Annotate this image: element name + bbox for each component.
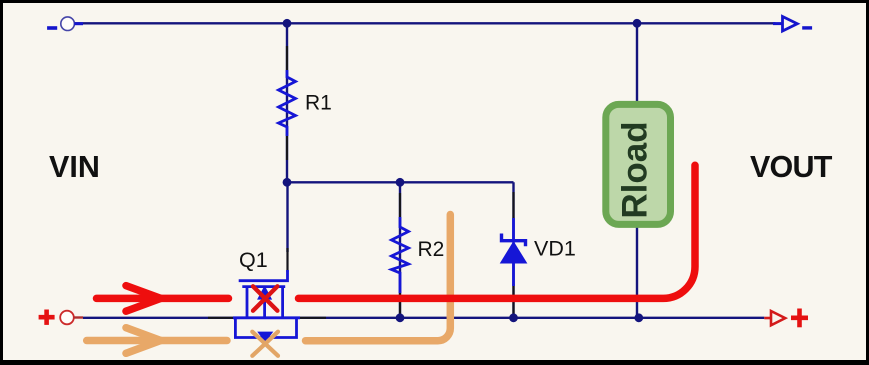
terminal stub bottom-left — [74, 316, 83, 318]
svg-text:VOUT: VOUT — [750, 150, 833, 184]
wire: Rload top lead — [636, 23, 638, 106]
wire: top rail — [74, 22, 775, 24]
load resistor Rload — [606, 104, 671, 224]
bottom bar — [233, 316, 300, 319]
substrate arrow — [259, 288, 269, 298]
junction dot middle R2 — [396, 178, 405, 187]
drain vertical — [246, 287, 249, 318]
pin segment R1 top (dark) — [286, 46, 288, 70]
orange current path left with arrowhead — [87, 328, 227, 354]
channel plate — [242, 285, 285, 288]
pin segment R2 top (dark) — [399, 193, 401, 217]
svg-text:R1: R1 — [305, 92, 332, 115]
junction dot bottom VD1 — [509, 313, 518, 322]
svg-text:R2: R2 — [418, 238, 445, 261]
minus sign top-right — [802, 26, 812, 29]
pin segment VD1 bottom (dark) — [512, 284, 514, 314]
red X over Q1 channel — [253, 286, 277, 310]
plus sign bottom-left — [39, 310, 55, 325]
transistor Q1 — [233, 270, 300, 340]
border frame — [0, 0, 869, 3]
svg-text:VIN: VIN — [49, 150, 100, 184]
terminal circle top-left — [61, 17, 75, 31]
junction dot bottom R2 — [396, 313, 405, 322]
pin segment bottom rail right of Q1 (dark) — [300, 317, 326, 319]
gate lead — [239, 270, 288, 281]
wire: VD1 branch vertical — [512, 182, 514, 317]
wire: R2 branch vertical — [399, 182, 401, 317]
wire: R1 branch vertical — [286, 23, 288, 182]
terminal stub top-left — [74, 22, 83, 25]
red current path right curving up to VOUT — [299, 165, 696, 298]
minus sign top-left — [47, 26, 57, 30]
port arrow bottom-right — [764, 317, 771, 320]
pin segment R1 bottom (dark) — [286, 136, 288, 160]
svg-text:VD1: VD1 — [534, 236, 576, 260]
svg-text:Rload: Rload — [616, 121, 655, 218]
svg-text:Q1: Q1 — [239, 248, 268, 272]
resistor R2 — [392, 217, 409, 293]
terminal circle bottom-left — [60, 311, 74, 325]
orange current path right curving up — [306, 215, 451, 341]
zener diode VD1 — [501, 218, 527, 286]
junction dot bottom Rload — [634, 313, 643, 322]
body diode loop — [235, 319, 296, 338]
pin segment R2 bottom (dark) — [399, 293, 401, 316]
wire: bottom rail left of Q1 — [83, 317, 233, 319]
junction dot top Rload — [633, 19, 642, 28]
wire: gate branch — [286, 182, 288, 252]
pin segment VD1 top (dark) — [512, 192, 514, 218]
source vertical — [281, 287, 284, 318]
wire: Rload bottom lead — [636, 224, 638, 318]
body diode — [260, 333, 271, 340]
pin segment gate (dark) — [286, 248, 288, 272]
port arrow top-right — [773, 22, 783, 25]
pin segment bottom rail left of Q1 (dark) — [208, 317, 233, 319]
wire: middle rail — [287, 181, 514, 183]
wire: bottom rail right of Q1 — [300, 317, 764, 319]
plus sign bottom-right — [791, 309, 808, 328]
resistor R1 — [279, 70, 296, 136]
orange X over body diode — [252, 332, 278, 356]
red current path left with arrowhead — [97, 286, 229, 312]
junction dot top R1 — [283, 19, 292, 28]
junction dot middle R1/gate — [283, 178, 292, 187]
